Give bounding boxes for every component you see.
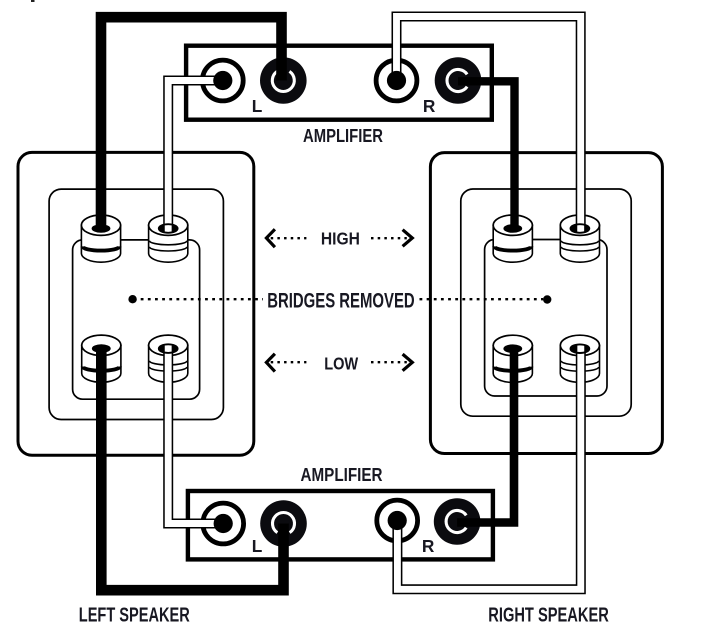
bottom amp black terminal L [260,500,307,547]
black wire bottom amp R to right speaker low [457,349,514,523]
svg-text:L: L [252,96,263,116]
svg-text:L: L [252,536,263,556]
top amp white terminal R [376,60,417,101]
left speaker middle box [49,189,223,419]
right speaker high white post hole outline [571,224,590,233]
bottom amp white terminal R center pin [388,511,407,530]
black wire bottom amp L to left speaker low [101,349,283,591]
top amplifier box [186,46,492,120]
bottom amp white terminal L center pin [214,514,233,533]
right speaker high white post [560,215,599,262]
svg-text:R: R [423,96,436,116]
bridges removed left dotted line [141,298,263,300]
right speaker middle box [461,189,631,416]
right speaker low white post hole outline [571,344,590,353]
svg-text:LOW: LOW [324,353,358,373]
right speaker high black post [493,215,532,262]
left speaker outer box [18,152,254,455]
top amp white terminal R center pin [387,71,406,90]
top amp black terminal R [435,57,482,104]
left speaker terminal plate [73,240,200,399]
LOW left dotted arrow [266,354,306,372]
white wire top amp L to left speaker high [168,81,223,233]
right speaker terminal plate [485,240,607,397]
white wire bottom amp L to left speaker low [168,345,223,524]
right speaker low white post [560,335,599,382]
top amp black terminal L [260,57,307,104]
bridges removed left node dot [128,295,136,303]
svg-text:RIGHT SPEAKER: RIGHT SPEAKER [488,605,609,627]
HIGH right dotted arrow [371,230,412,247]
black wire top amp L to left speaker high [101,17,282,228]
left speaker low white post [149,335,188,382]
svg-text:R: R [422,536,435,556]
left speaker high black post [81,215,120,262]
LOW right dotted arrow [371,354,412,371]
bottom amp black terminal R [434,498,481,545]
left speaker low white post hole outline [159,344,178,353]
white wire top amp R to right speaker high [397,17,581,233]
bottom amplifier box [188,491,493,559]
bridges removed right dotted line [420,298,544,300]
svg-text:AMPLIFIER: AMPLIFIER [303,126,383,147]
svg-text:LEFT SPEAKER: LEFT SPEAKER [79,605,190,627]
bridges removed right node dot [543,295,551,303]
top amp white terminal L center pin [213,71,232,90]
svg-text:AMPLIFIER: AMPLIFIER [301,465,383,486]
white wire bottom amp R to right speaker low [397,345,580,590]
right speaker low black post [493,335,532,382]
left speaker high white post [149,215,188,262]
svg-text:HIGH: HIGH [321,228,360,248]
bottom amp white terminal R [377,500,418,541]
black wire top amp R to right speaker high [458,81,515,228]
svg-text:BRIDGES REMOVED: BRIDGES REMOVED [267,290,415,313]
stray mark at top edge [31,0,35,2]
bottom amp white terminal L [203,503,244,544]
right speaker outer box [430,153,662,454]
top amp white terminal L [202,60,243,101]
left speaker high white post hole outline [159,224,178,233]
HIGH left dotted arrow [266,229,306,247]
left speaker low black post [82,335,121,382]
